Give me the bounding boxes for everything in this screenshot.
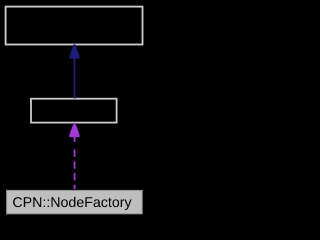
- inheritance arrow (solid midnightblue): [69, 44, 79, 98]
- node box (intermediate class, empty label): [31, 99, 117, 123]
- template relation arrow (dashed darkorchid): [69, 123, 79, 189]
- node box (base class, empty label): [6, 7, 143, 45]
- current node: CPN::NodeFactory: [7, 190, 143, 213]
